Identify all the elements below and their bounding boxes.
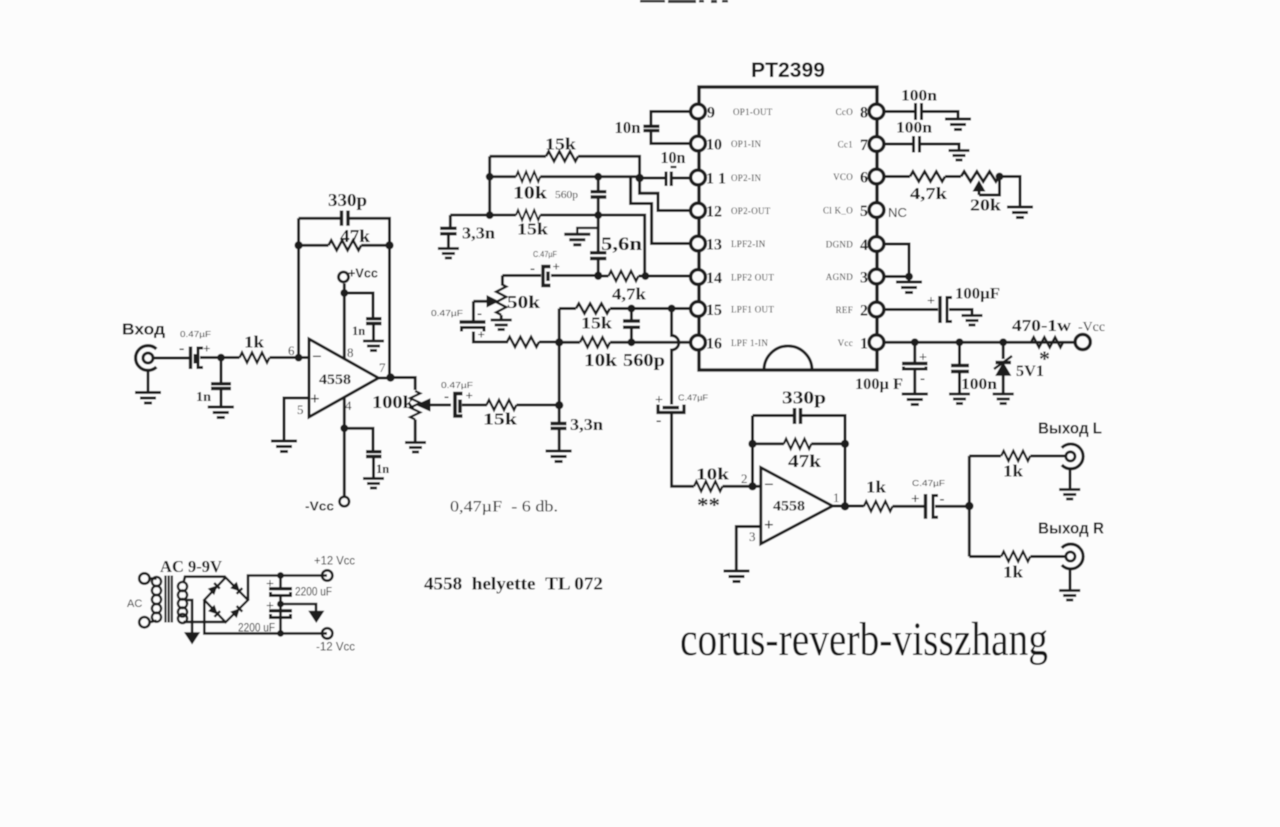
junction dot 10n node xyxy=(635,174,643,182)
AC terminal bottom xyxy=(139,617,149,627)
capacitor 1n (-Vcc) plates xyxy=(366,452,382,457)
jack L outer xyxy=(1062,444,1083,469)
wire pin2 to C 100uF xyxy=(884,308,938,311)
svg-text:-: - xyxy=(444,389,449,405)
capacitor 10n (pins 9-10) loop xyxy=(651,112,690,144)
svg-text:6: 6 xyxy=(288,343,295,358)
svg-text:LPF2 OUT: LPF2 OUT xyxy=(731,273,774,283)
svg-text:+: + xyxy=(919,351,927,366)
svg-text:Cl K_O: Cl K_O xyxy=(823,206,853,216)
jack R ground stem xyxy=(1069,569,1072,590)
secondary center tap xyxy=(186,600,192,633)
feedback2 top row to 330p xyxy=(753,414,794,417)
svg-text:-12 Vcc: -12 Vcc xyxy=(316,642,355,654)
capacitor 0.47uF (wiper-15k) stub xyxy=(458,400,462,414)
resistor 1k (input) xyxy=(240,353,270,363)
svg-text:+12 Vcc: +12 Vcc xyxy=(314,556,355,568)
svg-text:4558: 4558 xyxy=(319,372,351,388)
junction dot 47k left xyxy=(295,241,303,249)
capacitor 2200uF (top) plate xyxy=(269,587,292,590)
capacitor C.47uF (50k top) stub xyxy=(546,272,549,282)
bridge diode TL xyxy=(208,583,219,594)
ground (REF cap) xyxy=(962,316,983,326)
capacitor 100uF (Vcc) stem xyxy=(913,342,916,362)
branch R wire xyxy=(969,555,1001,558)
transformer primary winding xyxy=(152,577,161,586)
svg-text:+: + xyxy=(553,259,560,274)
wire R to pot 20k xyxy=(945,175,961,178)
svg-text:Вход: Вход xyxy=(122,322,165,339)
resistor 1k (R) xyxy=(1001,552,1030,562)
svg-text:+: + xyxy=(266,577,274,592)
capacitor 2200uF (bottom) plate xyxy=(269,609,292,612)
svg-text:3,3n: 3,3n xyxy=(462,224,496,243)
junction dot 100n xyxy=(956,338,964,346)
jack L ground stem xyxy=(1069,469,1072,489)
svg-text:1: 1 xyxy=(833,490,840,505)
svg-text:AC 9-9V: AC 9-9V xyxy=(160,557,223,576)
svg-text:330p: 330p xyxy=(328,190,367,210)
wire pin4 down to pin3 node xyxy=(884,244,909,277)
junction dot pin3/pin4 xyxy=(905,273,913,281)
resistor 4,7k (VCO) xyxy=(910,172,945,182)
wire 10k to pin2 node xyxy=(723,485,761,488)
AC terminal top xyxy=(139,573,149,583)
feedback2 47k row right xyxy=(811,442,845,445)
svg-text:+: + xyxy=(911,492,920,508)
stray dash above 10n xyxy=(671,166,677,168)
wire cap to split node xyxy=(935,505,969,508)
output junction wire xyxy=(379,377,391,380)
junction dot 0.47 node xyxy=(594,272,602,280)
pin 9 circle xyxy=(691,104,706,119)
input jack ground stem xyxy=(147,370,150,392)
center tap ground arrow xyxy=(186,633,199,643)
wire 1k R to jack xyxy=(1030,555,1066,558)
C.47uF (50k top) wire left xyxy=(502,274,541,277)
output2 wire to junction xyxy=(833,505,864,508)
svg-text:6: 6 xyxy=(860,170,868,187)
capacitor 0.47uF (input) bracket xyxy=(198,348,203,368)
wire down to 50k pot xyxy=(501,275,504,284)
row4 wire to 10k xyxy=(559,341,580,344)
input jack outer xyxy=(136,346,157,371)
svg-text:8: 8 xyxy=(347,345,354,360)
wire -Vcc to 1n xyxy=(344,428,373,450)
pin 15 circle xyxy=(691,302,706,317)
ground (100k pot) xyxy=(405,443,426,453)
feedback2 47k row xyxy=(753,442,785,445)
svg-text:0.47µF: 0.47µF xyxy=(180,329,211,339)
svg-text:−: − xyxy=(764,475,774,494)
feedback2 vertical left xyxy=(751,416,754,487)
ground (pin3/4) xyxy=(896,282,922,293)
capacitor 10n (pins 9-10) plates xyxy=(643,126,659,130)
svg-text:OP1-OUT: OP1-OUT xyxy=(733,107,773,117)
capacitor 5,6n plates xyxy=(590,253,606,259)
svg-text:LPF 1-IN: LPF 1-IN xyxy=(731,338,768,348)
svg-text:-: - xyxy=(920,371,925,387)
rail B wire right xyxy=(540,215,644,276)
svg-text:560p: 560p xyxy=(623,350,665,370)
junction dot pot/ground xyxy=(996,173,1004,181)
capacitor 2200uF (top) bracket xyxy=(271,592,291,596)
svg-text:C.47µF: C.47µF xyxy=(912,478,945,488)
transformer secondary winding xyxy=(178,582,187,591)
svg-text:3: 3 xyxy=(749,529,756,544)
svg-text:-: - xyxy=(179,340,184,357)
junction dot -Vcc 1n xyxy=(340,424,348,432)
wire 15k top to rail A corner xyxy=(578,156,640,178)
svg-text:15k: 15k xyxy=(483,410,518,429)
svg-text:15k: 15k xyxy=(545,135,577,154)
svg-text:PT2399: PT2399 xyxy=(751,59,825,82)
+Vcc wire pin8 xyxy=(343,284,346,359)
capacitor 330p plates xyxy=(342,211,349,226)
pin names right xyxy=(823,107,853,348)
wire cap to 15k xyxy=(462,403,487,406)
svg-text:+Vcc: +Vcc xyxy=(348,266,378,281)
wire 15k to center junction xyxy=(539,340,559,343)
capacitor 5,6n stem xyxy=(597,215,600,251)
-Vcc wire pin4 xyxy=(343,397,346,497)
capacitor 1n (input) plates xyxy=(211,384,231,389)
wire C.47uF to 5,6n node xyxy=(551,274,598,277)
pin 7 circle xyxy=(869,137,884,152)
junction dot rail A left xyxy=(486,173,494,181)
wire cap down to 10k** xyxy=(672,413,694,487)
capacitor 560p2 plates xyxy=(623,321,640,327)
feedback2 top row right xyxy=(802,416,845,444)
pot 20k wiper arrow xyxy=(978,186,981,195)
resistor 15k (row3 pin15) xyxy=(576,304,610,314)
svg-text:100n: 100n xyxy=(896,120,932,137)
svg-text:1k: 1k xyxy=(866,478,887,497)
svg-text:C.47µF: C.47µF xyxy=(533,249,557,259)
pin3 to ground wire xyxy=(736,527,761,571)
capacitor 1n (input) stem xyxy=(220,358,223,383)
svg-text:*: * xyxy=(1039,346,1050,371)
ground (-Vcc 1n) xyxy=(363,479,384,489)
capacitor 560p (rail) stem xyxy=(597,177,600,190)
svg-text:10n: 10n xyxy=(661,148,686,167)
svg-text:10: 10 xyxy=(706,137,722,154)
svg-text:Vcc: Vcc xyxy=(838,338,853,348)
svg-text:100µF: 100µF xyxy=(955,286,1000,303)
svg-text:0.47µF: 0.47µF xyxy=(431,308,463,318)
pot 20k wiper return wire xyxy=(979,179,1000,195)
zener 5V1 slash xyxy=(994,356,1012,369)
svg-text:15k: 15k xyxy=(581,314,613,333)
resistor 47k (feedback2) xyxy=(784,439,812,449)
junction dot 47k2 right xyxy=(841,440,849,448)
svg-text:1n: 1n xyxy=(196,390,211,405)
pin 13 circle xyxy=(691,236,706,251)
svg-text:−: − xyxy=(312,347,322,366)
wire 1k to opamp pin6 xyxy=(270,356,310,359)
svg-text:15: 15 xyxy=(706,302,722,319)
resistor 15k (row3 left) xyxy=(507,337,539,347)
pot 50k to ground xyxy=(500,315,503,319)
resistor 1k (L) xyxy=(1001,451,1030,461)
-Vcc terminal circle xyxy=(340,497,350,507)
terminal -12 xyxy=(322,628,332,638)
junction dot output opamp1 xyxy=(386,373,394,381)
capacitor 330p (opamp2) plates xyxy=(795,408,801,424)
svg-text:5,6n: 5,6n xyxy=(601,234,643,255)
op-amp U2a 4558 triangle xyxy=(309,339,379,417)
pot 100k to ground xyxy=(414,420,417,442)
svg-text:100n: 100n xyxy=(901,88,937,105)
ground (opamp1 pin5) xyxy=(271,441,297,452)
secondary top wire to bridge xyxy=(184,577,226,583)
bridge diode BR xyxy=(231,606,242,617)
svg-text:3,3n: 3,3n xyxy=(570,415,604,434)
pin numbers right xyxy=(860,105,868,353)
svg-text:-Vcc: -Vcc xyxy=(305,499,334,514)
potentiometer 50k track xyxy=(496,284,506,315)
svg-text:-: - xyxy=(656,412,661,429)
capacitor 0.47uF (to opamp2) plate xyxy=(663,406,680,409)
wire rail A branch down to pin13 xyxy=(631,177,690,244)
jack R outer xyxy=(1062,544,1083,569)
zener 5V1 anode triangle xyxy=(997,364,1011,376)
resistor 4,7k (to pin14) xyxy=(609,271,639,281)
ground (jack R) xyxy=(1059,591,1080,601)
svg-text:CcO: CcO xyxy=(836,107,854,117)
svg-text:9: 9 xyxy=(707,105,715,122)
svg-text:+: + xyxy=(655,393,663,408)
svg-text:0,47µF - 6 db.: 0,47µF - 6 db. xyxy=(450,499,558,516)
capacitor 3,3n (left) corner wire xyxy=(449,215,452,227)
pin 16 circle xyxy=(691,335,706,350)
svg-text:+: + xyxy=(764,515,774,534)
top cropped text fragment xyxy=(640,0,728,3)
svg-text:AC: AC xyxy=(127,598,142,610)
resistor 15k (top) xyxy=(546,151,578,161)
svg-text:NC: NC xyxy=(888,205,907,220)
rail A wire 10k row xyxy=(490,175,516,178)
svg-text:1 1: 1 1 xyxy=(706,171,726,188)
junction dot plus rail xyxy=(277,572,284,579)
svg-text:-: - xyxy=(477,306,482,322)
junction dot rail B 560p xyxy=(594,211,602,219)
resistor 4,7k (to pin14) left wire xyxy=(598,275,608,278)
resistor 10k (rail A) xyxy=(516,172,540,182)
svg-text:OP1-IN: OP1-IN xyxy=(731,139,761,149)
wire 10k to pin16 xyxy=(610,341,690,344)
feedback vertical left xyxy=(297,218,300,357)
svg-text:47k: 47k xyxy=(340,226,370,246)
bridge rectifier diamond xyxy=(204,578,248,623)
svg-text:-Vcc: -Vcc xyxy=(1078,320,1105,335)
rail B wire 15k row xyxy=(450,214,516,217)
svg-text:Выход L: Выход L xyxy=(1038,421,1102,438)
capacitor 0,47uF (wiper) bracket xyxy=(462,328,485,332)
wire pin7 to C 100n xyxy=(884,143,912,146)
svg-text:+: + xyxy=(266,599,274,614)
svg-text:Выход R: Выход R xyxy=(1038,521,1104,538)
svg-text:OP2-OUT: OP2-OUT xyxy=(731,206,771,216)
svg-text:2200 uF: 2200 uF xyxy=(295,585,332,599)
ground (3,3n bottom) xyxy=(546,451,572,462)
svg-text:AGND: AGND xyxy=(826,272,853,282)
svg-text:7: 7 xyxy=(860,137,868,154)
wire 1k to cap xyxy=(893,505,925,508)
capacitor 1n (+Vcc) plates xyxy=(366,319,382,324)
ground (3,3n left) xyxy=(438,249,459,259)
wire pin6 to R 4,7k xyxy=(884,175,910,178)
capacitor 100uF (REF) plate xyxy=(938,296,941,323)
junction dot 560p2 bottom xyxy=(628,338,636,346)
zener diode 5V1 stem xyxy=(1002,342,1005,359)
svg-text:OP2-IN: OP2-IN xyxy=(731,173,761,183)
svg-text:5: 5 xyxy=(297,402,304,417)
svg-text:1k: 1k xyxy=(244,333,265,352)
branch L wire xyxy=(969,454,1001,457)
svg-text:+: + xyxy=(203,341,210,356)
wire pin3 to node xyxy=(884,275,909,278)
svg-text:DGND: DGND xyxy=(826,240,853,250)
pin 8 circle xyxy=(869,104,884,119)
capacitor 0.47uF (to opamp2) bracket xyxy=(658,405,684,413)
svg-text:1k: 1k xyxy=(1003,563,1024,582)
hop wire pin15 branch over row4 xyxy=(672,309,679,405)
svg-text:REF: REF xyxy=(836,305,853,315)
secondary bottom wire to bridge xyxy=(184,621,226,624)
capacitor C.47uF (50k top) bracket xyxy=(543,267,551,286)
svg-text:100µ F: 100µ F xyxy=(855,376,903,393)
svg-text:12: 12 xyxy=(706,204,722,221)
capacitor 560p2 stem xyxy=(630,309,633,320)
pot 50k wiper arrow xyxy=(473,300,488,303)
svg-text:100n: 100n xyxy=(961,376,997,393)
zener 5V1 cathode bar xyxy=(996,361,1012,364)
mid ground arrow xyxy=(310,612,323,622)
wire jack to input cap xyxy=(153,356,190,359)
ground (jack L) xyxy=(1059,490,1080,500)
svg-text:10k: 10k xyxy=(513,183,547,203)
svg-text:10k: 10k xyxy=(696,465,730,484)
junction dot pin6 node xyxy=(295,354,303,362)
junction dot pin15 branch xyxy=(668,305,676,313)
capacitor 560p (rail) plates xyxy=(591,192,607,197)
svg-text:+: + xyxy=(466,388,473,403)
primary connection wires xyxy=(150,579,157,623)
potentiometer 100k track xyxy=(410,391,420,420)
pin 3 circle xyxy=(869,269,884,284)
resistor 10k (row4 pin16) xyxy=(580,337,610,347)
junction dot 4,7k right xyxy=(642,272,650,280)
svg-text:C.47µF: C.47µF xyxy=(678,393,708,403)
svg-text:LPF2-IN: LPF2-IN xyxy=(731,239,766,249)
svg-text:1n: 1n xyxy=(376,462,389,476)
junction dot x559 row4 xyxy=(555,338,563,346)
feedback top row to 330p xyxy=(299,217,340,220)
pin 12 circle xyxy=(691,203,706,218)
capacitor 100uF (REF) bracket xyxy=(947,298,952,322)
svg-text:50k: 50k xyxy=(507,292,540,312)
junction dot input node xyxy=(217,354,225,362)
feedback 47k row right xyxy=(361,244,389,247)
junction dot 100uF xyxy=(911,338,919,346)
junction dot 47k2 left xyxy=(748,440,756,448)
capacitor 100n (pin8) xyxy=(916,103,922,120)
wire pot to ground xyxy=(1000,177,1021,208)
arrowhead to 100k wiper xyxy=(419,400,429,409)
terminal circle +Vcc supply xyxy=(1075,334,1090,349)
ground (input jack) xyxy=(135,393,161,404)
feedback vertical right to output xyxy=(388,245,391,377)
bridge diode TR xyxy=(231,582,242,593)
junction dot 4,7k left xyxy=(594,272,602,280)
wire C to ground xyxy=(949,310,972,316)
svg-text:-: - xyxy=(940,492,945,508)
feedback top row right xyxy=(350,218,390,245)
ground (opamp2 pin3) xyxy=(724,571,750,582)
junction dot rail B left xyxy=(486,211,494,219)
ground (50k pot) xyxy=(491,320,512,330)
left column wire x490 xyxy=(488,156,491,215)
split vertical xyxy=(968,456,971,557)
+Vcc terminal circle xyxy=(339,272,349,282)
pin numbers left xyxy=(706,105,726,353)
plus rail from bridge xyxy=(248,576,327,601)
capacitor 2200uF (bottom) bracket xyxy=(271,614,291,618)
row3 wire to 15k xyxy=(559,307,576,310)
wire cap down and right to 15k xyxy=(473,332,508,342)
ground (20k pot) xyxy=(1007,207,1033,218)
capacitor 100uF (Vcc) bracket xyxy=(904,367,927,370)
pin names left xyxy=(731,107,774,348)
pin 2 circle xyxy=(869,302,884,317)
svg-text:4,7k: 4,7k xyxy=(612,285,647,304)
junction dot zener xyxy=(999,338,1007,346)
wire 15k to pin15 xyxy=(610,307,690,310)
capacitor 100n (Vcc) plates xyxy=(951,366,969,372)
capacitor 0,47uF (wiper) plate xyxy=(460,320,486,323)
wire Vcc rail pin1 to terminal xyxy=(884,341,1075,344)
pin 11 circle xyxy=(691,170,706,185)
svg-text:+: + xyxy=(927,294,935,309)
IC bottom notch xyxy=(764,346,812,370)
svg-text:3: 3 xyxy=(860,270,868,287)
pin5 to ground wire xyxy=(284,398,309,440)
svg-text:-: - xyxy=(530,261,535,277)
svg-text:5: 5 xyxy=(860,203,868,220)
feedback 47k row left xyxy=(299,244,329,247)
pin 14 circle xyxy=(691,270,706,285)
junction dot x559 bottom row xyxy=(555,401,563,409)
terminal +12 xyxy=(322,570,332,580)
svg-text:2: 2 xyxy=(741,471,748,486)
staircase wire node to pin12 xyxy=(640,178,690,211)
junction dot cap mid xyxy=(277,601,284,608)
svg-text:8: 8 xyxy=(860,105,868,122)
resistor 47k (feedback1) xyxy=(329,240,362,250)
svg-text:2200 uF: 2200 uF xyxy=(238,621,275,635)
junction dot output2 xyxy=(841,502,849,510)
svg-text:**: ** xyxy=(697,493,720,517)
svg-text:1n: 1n xyxy=(352,324,365,338)
pin 4 circle xyxy=(869,237,884,252)
junction dot rail A 560p xyxy=(594,173,602,181)
junction dot +Vcc xyxy=(340,289,348,297)
IC U1 PT2399 body xyxy=(699,87,877,370)
junction dot split node xyxy=(965,502,973,510)
svg-text:+: + xyxy=(478,327,485,342)
pin 6 circle xyxy=(869,169,884,184)
